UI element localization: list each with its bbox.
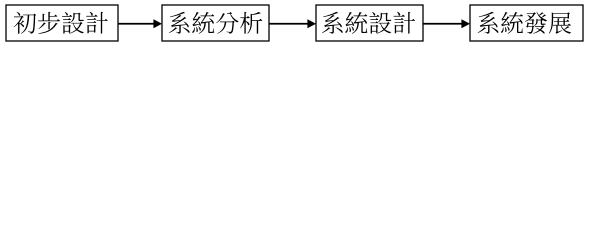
- label text "系統分析" in box 2: [169, 12, 262, 34]
- arrow from box 2 to box 3: head: [307, 19, 316, 28]
- label text "初步設計" in box 1: [14, 12, 108, 34]
- arrow from box 1 to box 2: shaft: [118, 23, 154, 25]
- process box 1 初步設計 rectangle: [6, 5, 118, 41]
- arrow from box 3 to box 4: head: [461, 19, 470, 28]
- arrow from box 1 to box 2: head: [153, 19, 162, 28]
- process box 4 系統發展 rectangle: [470, 5, 583, 41]
- arrow from box 3 to box 4: shaft: [423, 23, 462, 25]
- arrow from box 2 to box 3: shaft: [269, 23, 308, 25]
- process box 2 系統分析 rectangle: [162, 5, 269, 41]
- label text "系統發展" in box 4: [478, 12, 572, 34]
- label text "系統設計" in box 3: [322, 12, 415, 34]
- process box 3 系統設計 rectangle: [316, 5, 423, 41]
